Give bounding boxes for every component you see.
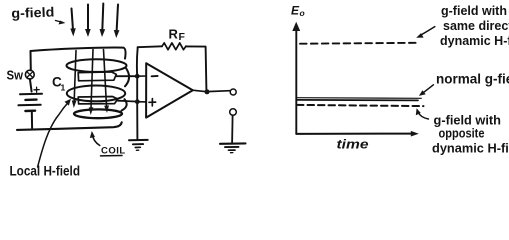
svg-text:dynamic H-fie: dynamic H-fie — [440, 34, 509, 48]
svg-text:Sw: Sw — [7, 68, 24, 83]
svg-text:1: 1 — [61, 83, 66, 93]
svg-text:R: R — [169, 27, 179, 42]
svg-text:same directio: same directio — [443, 19, 509, 33]
svg-text:Local H-field: Local H-field — [10, 164, 81, 179]
svg-text:opposite: opposite — [439, 126, 485, 141]
svg-text:normal g-fiel: normal g-fiel — [436, 72, 509, 87]
svg-text:o: o — [300, 8, 305, 18]
svg-text:time: time — [337, 137, 369, 152]
svg-text:F: F — [179, 31, 186, 43]
svg-text:g-field with: g-field with — [441, 3, 507, 18]
svg-text:dynamic H-fie: dynamic H-fie — [432, 141, 509, 156]
svg-text:g-field: g-field — [11, 5, 54, 21]
svg-text:COIL: COIL — [101, 146, 126, 157]
